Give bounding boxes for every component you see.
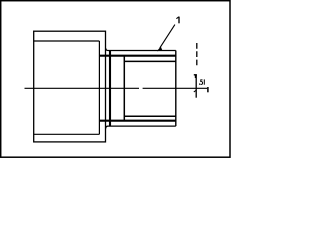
dimension text .51 decimal point bbox=[199, 84, 200, 85]
cap inner bore top line bbox=[34, 40, 100, 42]
tube thick inner wall top bbox=[99, 55, 175, 57]
centerline left dashed segment bbox=[25, 87, 140, 89]
leader arrowhead bbox=[157, 47, 162, 51]
tube inner sleeve left edge bbox=[123, 56, 125, 121]
dimension top tick bbox=[194, 74, 197, 76]
tube top edge bbox=[106, 48, 176, 50]
tube inner sleeve bottom line bbox=[124, 115, 176, 117]
dimension extension vertical bbox=[195, 75, 197, 98]
cap inner bore right edge bbox=[98, 41, 100, 134]
dimension oblique tick at centerline bbox=[194, 90, 197, 92]
tube inner sleeve top line bbox=[124, 60, 176, 62]
cap inner bore bottom line bbox=[34, 133, 100, 135]
dimension text digit 5 bbox=[200, 80, 202, 85]
tube thick left end face bbox=[109, 51, 111, 126]
tube thick inner wall bottom bbox=[99, 120, 175, 122]
hidden extension dashed line bbox=[196, 43, 198, 66]
centerline right segment bbox=[143, 87, 208, 89]
dimension text digit 1 bbox=[204, 79, 205, 84]
callout label 1 stem bbox=[178, 17, 180, 24]
dimension end tick bbox=[207, 87, 209, 92]
tube bottom edge bbox=[106, 126, 176, 128]
dimension top tick stem bbox=[194, 75, 196, 78]
tube right edge bbox=[175, 51, 177, 127]
callout label 1 flag bbox=[176, 17, 178, 19]
leader line bbox=[160, 25, 175, 48]
border frame bbox=[1, 1, 230, 158]
cap outer rectangle bbox=[34, 31, 106, 142]
